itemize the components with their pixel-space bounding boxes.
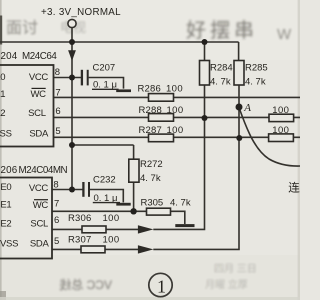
underline below 0.1u <box>92 88 119 90</box>
svg-text:SCL: SCL <box>30 219 48 230</box>
wire R272 bottom lead to WC2 row <box>133 182 135 211</box>
wire SCL row of IC2 through R306 to arrow <box>52 228 138 230</box>
capacitor C207 <box>82 70 88 86</box>
svg-text:100: 100 <box>167 125 184 136</box>
svg-text:WC: WC <box>30 89 46 100</box>
svg-text:1: 1 <box>157 276 166 296</box>
svg-text:6: 6 <box>54 215 59 226</box>
svg-text:+3. 3V_NORMAL: +3. 3V_NORMAL <box>41 7 121 18</box>
svg-text:4. 7k: 4. 7k <box>210 76 231 87</box>
wire R284 bottom lead down to SCL bus <box>204 85 206 117</box>
svg-text:E1: E1 <box>0 199 11 210</box>
resistor R286 <box>149 94 174 102</box>
IC1 pin numbers <box>55 67 61 137</box>
svg-text:R287: R287 <box>139 125 163 136</box>
svg-text:SCL: SCL <box>28 108 46 119</box>
wire R272 feed from VCC line <box>72 144 134 146</box>
svg-text:R305: R305 <box>141 198 164 209</box>
svg-text:8: 8 <box>55 67 60 78</box>
svg-text:100: 100 <box>272 105 289 116</box>
svg-text:4. 7k: 4. 7k <box>170 198 191 209</box>
resistor R287 <box>149 134 174 142</box>
ground bar for R305 <box>175 224 194 227</box>
svg-text:100: 100 <box>103 234 120 245</box>
wire WC row of IC2 to R305 <box>52 210 147 212</box>
svg-text:E0: E0 <box>0 182 11 193</box>
wire SCL row of IC1 through R288 to right edge <box>54 116 301 118</box>
svg-text:VSS: VSS <box>0 129 12 140</box>
wire main vertical VCC line <box>71 42 73 190</box>
resistor 100 (right lower) <box>269 134 294 142</box>
wire R284 column down and left to R306 arrow <box>153 117 204 229</box>
svg-text:W: W <box>277 26 292 43</box>
resistor R272 (vertical) <box>129 159 139 182</box>
overline of WC IC1 <box>32 87 46 89</box>
svg-text:R272: R272 <box>140 159 163 170</box>
resistor R306 <box>82 226 106 233</box>
svg-text:R284: R284 <box>210 63 233 74</box>
svg-text:7: 7 <box>54 199 59 210</box>
svg-text:100: 100 <box>272 125 289 136</box>
svg-text:100: 100 <box>167 105 184 116</box>
resistor 100 (right upper) <box>269 114 294 121</box>
IC2 pin labels inside <box>29 183 50 250</box>
power terminal circle <box>68 19 76 27</box>
svg-text:5: 5 <box>54 236 59 247</box>
svg-text:R286: R286 <box>138 84 162 95</box>
power flow arrow on VCC line <box>68 50 76 61</box>
svg-text:R307: R307 <box>68 234 92 245</box>
wire SDA row of IC2 through R307 to arrow <box>52 248 138 250</box>
node rail-R284 junction <box>202 39 208 45</box>
wire R284 top lead <box>204 42 206 61</box>
svg-text:SDA: SDA <box>29 129 49 140</box>
wire R285 column down and left to R307 arrow <box>153 137 239 249</box>
svg-text:E1: E1 <box>0 89 5 100</box>
svg-text:206: 206 <box>1 165 18 176</box>
flow arrow on SCL2 wire <box>138 225 154 233</box>
wire IC1 pin8 to C207 <box>54 77 82 79</box>
node R284-SCL bus junction <box>202 115 208 121</box>
svg-text:M24C64: M24C64 <box>22 51 57 62</box>
svg-text:VCC: VCC <box>29 183 49 194</box>
svg-text:E0: E0 <box>0 72 5 83</box>
flow arrow on SDA2 wire <box>138 245 154 253</box>
svg-text:4. 7k: 4. 7k <box>140 173 161 184</box>
svg-text:100: 100 <box>166 84 183 95</box>
svg-text:VCC 总线: VCC 总线 <box>59 278 112 292</box>
svg-text:5: 5 <box>55 126 60 137</box>
svg-text:四月 三日: 四月 三日 <box>214 263 257 275</box>
IC2 pin numbers <box>53 179 59 247</box>
resistor R305 <box>147 208 171 215</box>
op IC2 box M24C04MN <box>0 178 52 259</box>
svg-text:好摆串: 好摆串 <box>186 19 258 42</box>
circled figure number 1 <box>149 273 172 296</box>
ground bar for C232 <box>116 203 130 206</box>
svg-text:E2: E2 <box>0 219 11 230</box>
capacitor C232 <box>83 182 89 197</box>
IC2 left pin labels <box>0 182 18 250</box>
node rail-VCC junction <box>69 39 75 45</box>
net +3.3V rail <box>0 41 239 43</box>
svg-text:VSS: VSS <box>0 239 18 250</box>
node IC2 pin8 junction <box>69 187 75 193</box>
svg-text:月曜 立厚: 月曜 立厚 <box>205 278 248 291</box>
svg-text:4. 7k: 4. 7k <box>245 76 266 87</box>
resistor R307 <box>81 246 105 253</box>
IC1 left pin labels (cut by page edge) <box>0 72 12 139</box>
bleed-through text (back of page) <box>186 19 258 42</box>
svg-text:100: 100 <box>103 213 120 224</box>
wire C207 right plate to ground corner <box>89 78 124 89</box>
edge artifacts of scan <box>0 0 2 300</box>
svg-text:C207: C207 <box>93 62 116 73</box>
wire SDA row of IC1 through R287 to right edge <box>54 136 301 138</box>
wire curved flying lead from node A off right edge <box>239 108 300 167</box>
wire rail corner down to R285 <box>238 42 240 61</box>
svg-text:VCC: VCC <box>29 72 49 83</box>
svg-text:连: 连 <box>288 181 300 195</box>
wire R272 top lead <box>133 145 135 159</box>
wire R305 to ground corner <box>171 211 185 224</box>
svg-text:C232: C232 <box>93 174 116 185</box>
svg-text:8: 8 <box>53 179 58 190</box>
ground bar for C207 <box>116 89 131 92</box>
resistor R288 <box>149 114 174 122</box>
resistor R284 (vertical) <box>200 61 210 86</box>
node R285-SDA bus junction <box>236 135 242 141</box>
svg-text:面讨: 面讨 <box>6 19 38 37</box>
svg-text:204: 204 <box>1 51 18 62</box>
svg-text:M24C04MN: M24C04MN <box>19 165 68 176</box>
resistor R285 (vertical) <box>234 61 244 86</box>
IC1 pin labels inside <box>28 72 49 139</box>
op IC1 box M24C64 <box>0 65 54 147</box>
underline below 0.1u <box>93 202 120 204</box>
node R272-WC2 junction <box>130 208 136 214</box>
node R272 feed junction <box>69 142 75 148</box>
svg-text:R285: R285 <box>245 63 268 74</box>
svg-text:R288: R288 <box>139 105 163 116</box>
svg-text:R306: R306 <box>68 213 92 224</box>
wire C232 right plate to ground corner <box>90 190 123 203</box>
svg-text:A: A <box>243 102 251 114</box>
node A <box>236 104 243 111</box>
svg-text:6: 6 <box>55 106 60 117</box>
svg-text:7: 7 <box>55 88 60 99</box>
wire WC row of IC1 through R286 to right edge <box>54 96 301 98</box>
svg-text:WC: WC <box>33 200 49 211</box>
node IC1 pin8 junction <box>69 75 75 81</box>
overline of WC IC2 <box>34 199 48 201</box>
svg-text:E2: E2 <box>0 108 5 119</box>
wire power terminal drop <box>71 28 73 42</box>
svg-text:SDA: SDA <box>30 239 50 250</box>
wire IC2 pin8 to C232 <box>52 189 83 191</box>
wire R285 bottom lead through node A down to SDA bus <box>238 85 240 137</box>
